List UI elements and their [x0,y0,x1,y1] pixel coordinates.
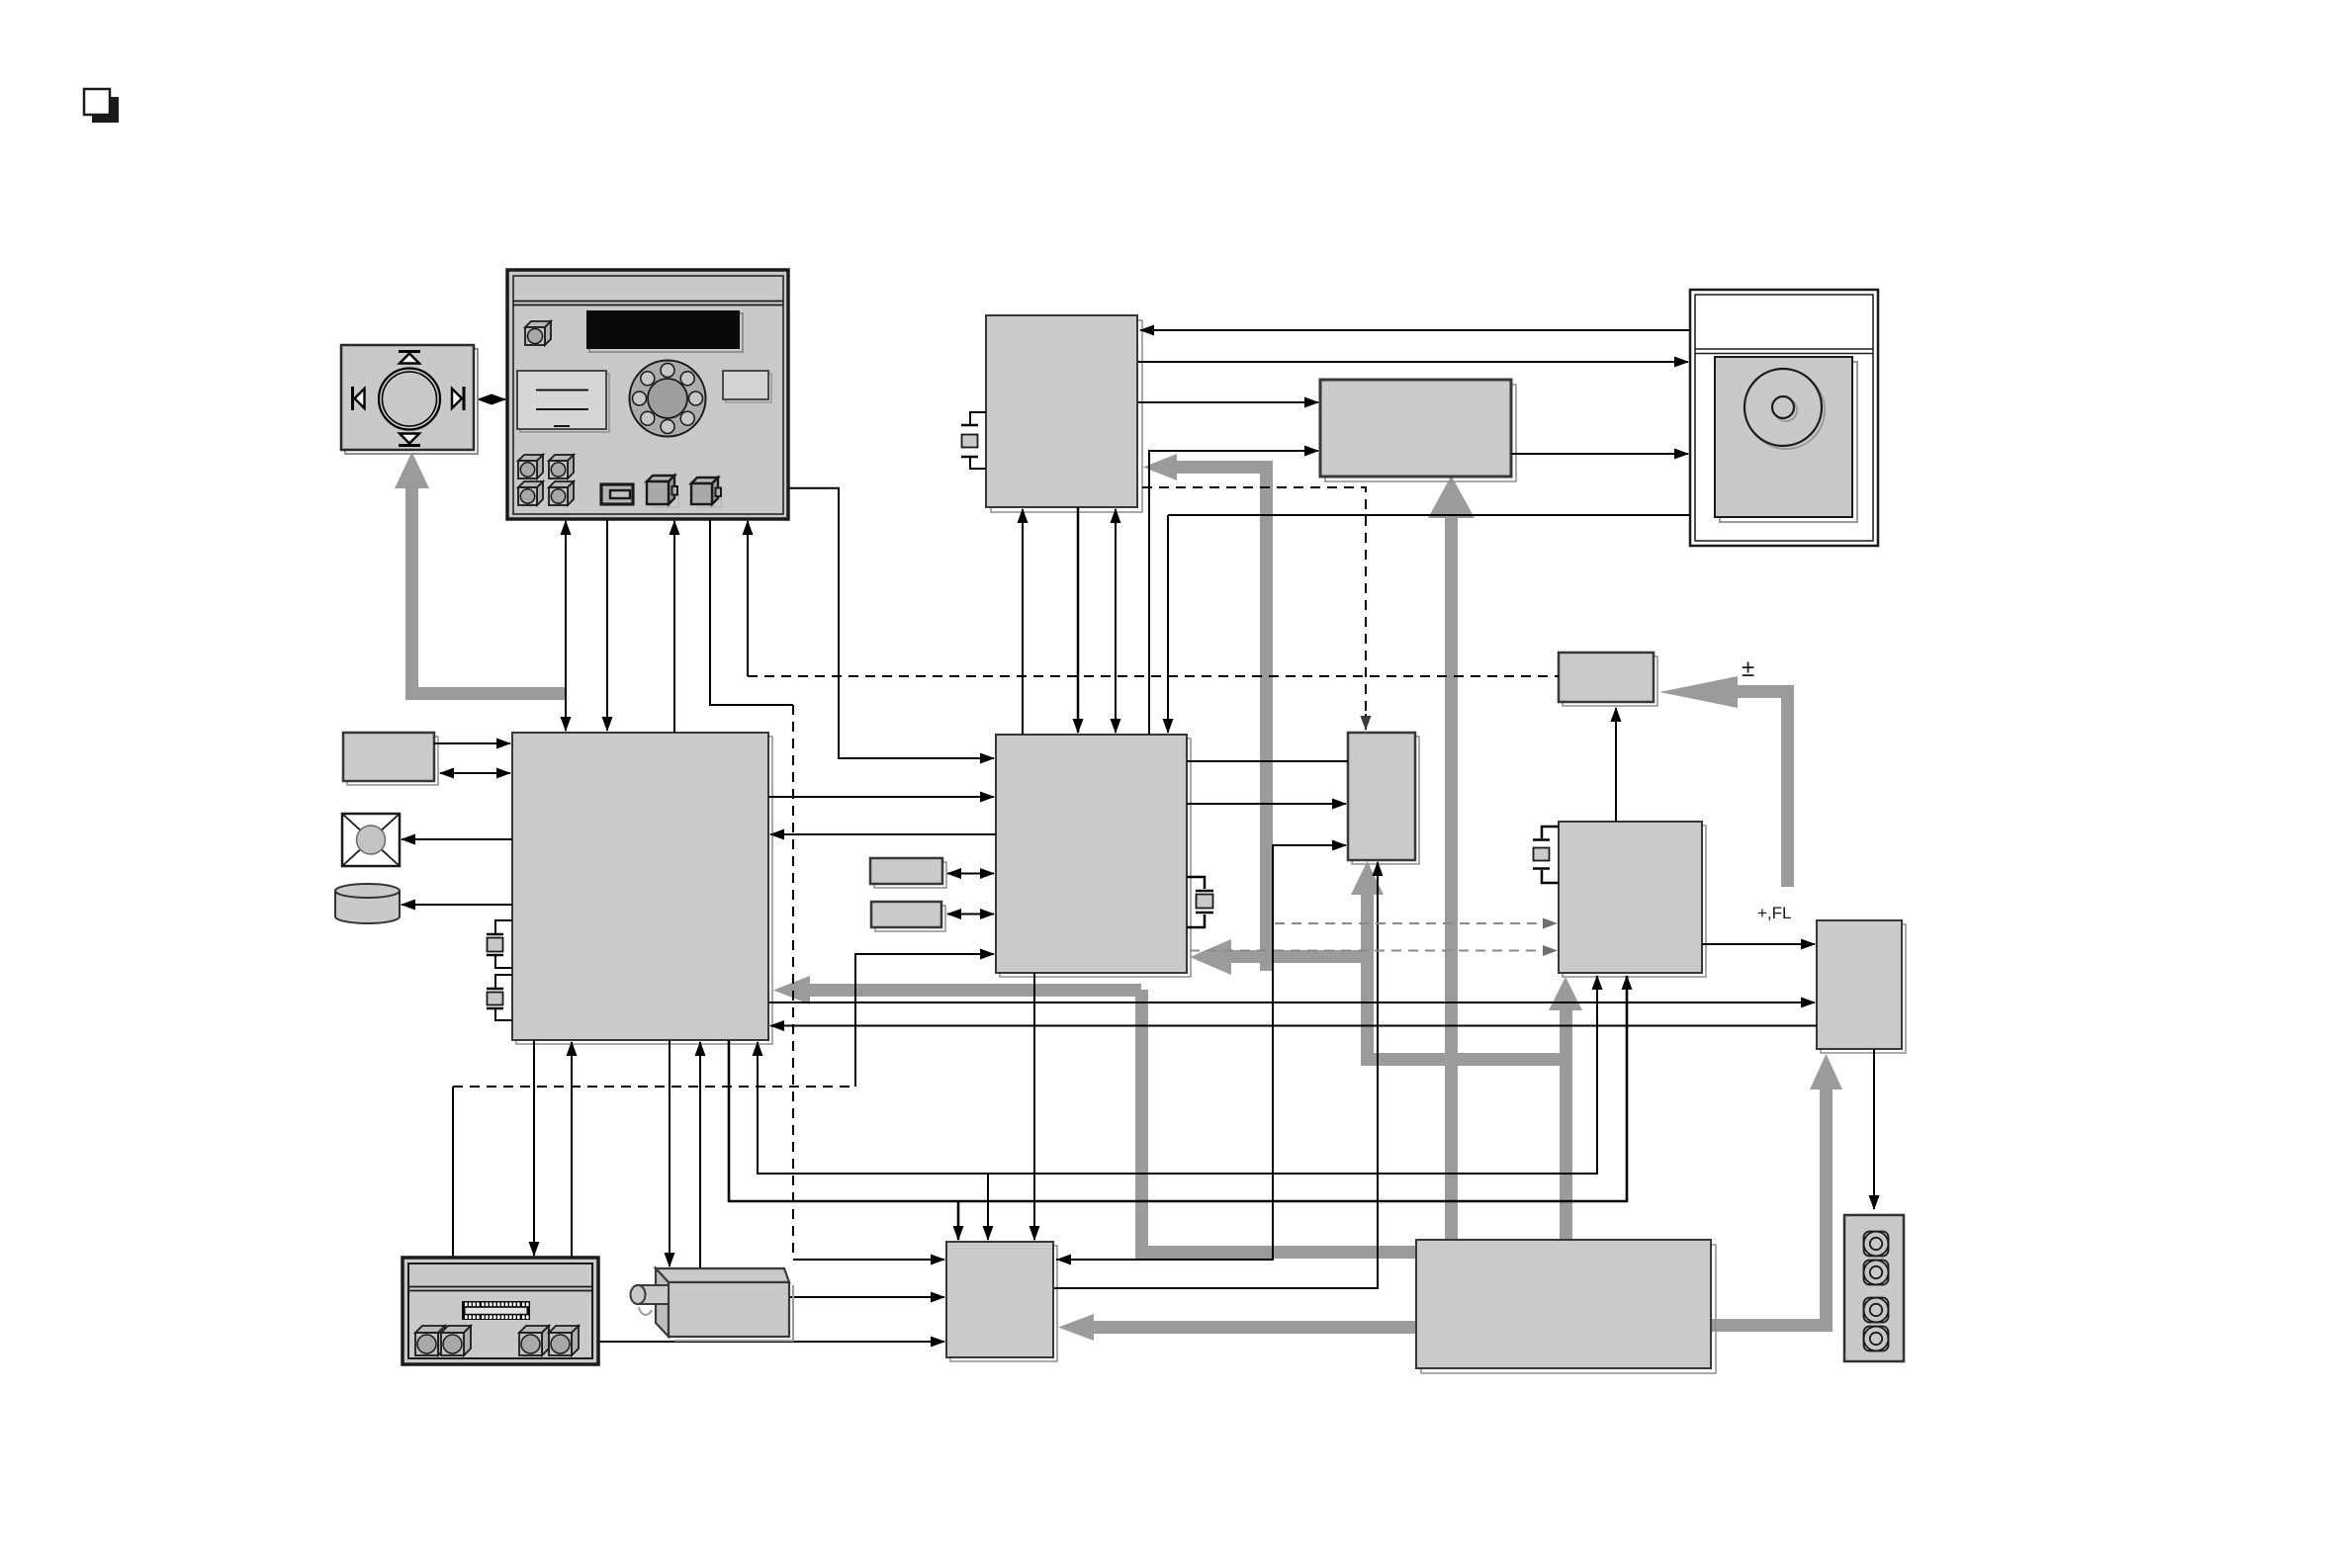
block DSP [996,735,1191,977]
wire dashed servo block to servo driver [1142,487,1366,719]
block RAM2 [871,902,945,931]
wire mech control to servo driver bottom [1054,862,1378,1288]
svg-text:±: ± [1742,655,1754,682]
crystal X1 at controller left [487,920,512,968]
gray bar B from power supply to FL driver [1549,977,1582,1240]
RCA jack panel [1844,1215,1904,1361]
svg-text:+,FL: +,FL [1757,904,1792,922]
block servo driver (small right of DSP) [1348,733,1419,864]
block mech control [946,1242,1057,1361]
block RF amplifier (top middle) [1320,380,1516,481]
battery cylinder [335,884,400,923]
panel button 3 [518,481,543,505]
gray power line power-supply to audio output block [1711,1054,1842,1332]
wire RAM1 - DSP bidirectional [947,873,994,875]
wire DSP to servo driver upper [1187,760,1348,762]
wire front panel right to DSP [788,488,994,758]
compact disc [1747,372,1825,449]
RCA jack 3 [1864,1298,1889,1323]
RCA jack 1 [1864,1232,1889,1257]
wire remote pad to front panel bidirectional [478,398,505,400]
wire dashed into FL driver upper [1275,922,1557,924]
panel jack B [691,478,721,507]
wire net controller to FL driver and mech (thin) [758,979,1597,1174]
wire FL driver to +/- block [1615,708,1617,822]
deck button 2 [441,1326,471,1355]
panel jog dial [630,361,706,437]
cassette deck mechanism [403,1258,598,1364]
panel power button [525,321,551,327]
wire EEPROM-controller bidirectional [440,772,510,774]
block power supply [1416,1240,1716,1373]
page icon top-left [84,89,119,123]
wire controller to DSP [768,796,994,798]
wire cassette deck via dashed to DSP [452,1087,454,1258]
wire loading motor to controller [699,1042,701,1270]
panel top strip divider [513,301,783,303]
GRAY-NETS [395,452,1842,1341]
block +/- power indicator [1559,653,1657,706]
block RAM1 [870,858,946,888]
gray bar A from power supply to RF amp block [1428,476,1475,1240]
wire DSP to controller [770,833,996,835]
pad up key [399,350,420,353]
block EEPROM [343,733,438,785]
panel display [589,313,743,352]
loading motor 3D box [631,1268,794,1341]
wire controller to loading motor [669,1040,671,1266]
pad jog ring [379,369,440,430]
wire cassette deck to mech control [598,1341,944,1343]
wire controller to speaker [402,838,512,840]
wire loading motor to mech control [789,1296,944,1298]
gray power line power-supply to mech control block [1058,1314,1416,1341]
wire CD mech to servo block [1140,329,1690,331]
deck tape window [462,1301,530,1320]
wire DSP to servo driver arrow [1187,803,1346,805]
pad left key [351,387,354,410]
panel card slot [601,484,633,504]
front panel [507,270,788,519]
pad down key [399,444,420,447]
block system controller [512,733,772,1044]
CD tray plate [1720,362,1857,522]
wire audio output to RCA jacks [1873,1049,1875,1209]
RCA jack 2 [1864,1261,1889,1285]
wire controller to front panel [673,521,675,733]
wire servo block to RF amp [1138,401,1318,403]
wire RF amp to CD mech [1511,453,1688,455]
wire servo block to CD mech [1138,361,1688,363]
wire front panel to controller [606,519,608,731]
panel button 4 [549,481,574,505]
gray power line power-supply to system controller [773,976,1416,1259]
wire EEPROM to controller [434,742,510,744]
wire servo block - DSP bidirectional [1115,509,1117,733]
crystal at servo block left [961,412,986,469]
block audio output [1817,920,1906,1053]
wire FL driver to audio output [1702,943,1815,945]
wire mech control - servo driver bidirectional [1056,845,1346,1260]
wire front panel to FL driver dashed [747,521,749,676]
deck button 4 [549,1326,579,1355]
deck button 1 [415,1326,445,1355]
gray bus bar D with arrow into CD servo block [1143,454,1273,971]
wire front panel to mech control via dashed drop [710,519,793,705]
panel right window [726,374,771,402]
wire dashed into FL driver lower [1190,950,1557,952]
wire net controller to FL driver and mech (thick) [729,979,1627,1201]
wire controller to audio output [768,1002,1815,1003]
gray arrow into DSP right edge and bar C up to servo driver block [1190,861,1572,1066]
wire DSP to mech control [1033,973,1035,1240]
deck button 3 [519,1326,549,1355]
wire controller to cassette deck [533,1040,535,1256]
block FL display driver [1559,822,1706,977]
panel jack A [647,476,678,507]
wire servo block to DSP [1077,507,1080,733]
remote control pad [341,345,478,454]
panel disc tray [520,374,609,432]
wire CD mech down to DSP [1168,514,1690,516]
wire RAM2 - DSP bidirectional [947,914,994,915]
RCA jack 4 [1864,1327,1889,1351]
block CD servo processor (top tall) [986,315,1142,512]
wire cassette deck to controller [571,1042,573,1258]
wire DSP to servo block [1022,509,1024,735]
crystal at DSP right [1187,877,1213,927]
wire controller to cylinder [402,904,512,906]
gray arrow into +/- block with down bar [1659,676,1794,887]
gray power arrow into remote pad [395,452,566,700]
wire audio output to controller [770,1025,1817,1027]
pad right key [463,387,466,410]
wire front panel - controller bidirectional [565,521,567,731]
speaker symbol [342,814,400,866]
crystal X2 at controller left [487,975,512,1020]
CD mechanism [1690,290,1878,546]
panel button 1 [518,455,543,479]
crystal at FL driver left [1533,827,1559,883]
wire DSP top corner to RF amp [1149,451,1318,735]
panel button 2 [549,455,574,479]
